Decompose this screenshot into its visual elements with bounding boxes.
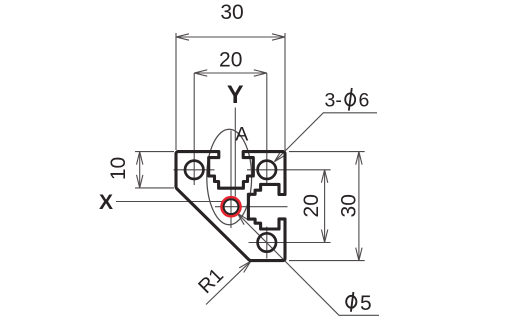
arrowhead 30 top right [272, 34, 285, 40]
arrowhead 20 right down [321, 230, 327, 243]
dimension line 30 right [358, 152, 360, 261]
arrowhead 10 up [137, 152, 143, 165]
svg-text:A: A [235, 124, 248, 146]
label 3-phi6: phi symbol [345, 88, 355, 111]
profile outline (30x30 corner extrusion cross-section) [176, 152, 285, 261]
arrowhead leader 3-phi6 [275, 150, 287, 162]
dimension line 10 left [139, 152, 141, 188]
thin construction lines group [116, 33, 379, 315]
svg-text:3-: 3- [325, 90, 342, 112]
extension line 30-top left [175, 33, 177, 150]
centerline top-left hole horizontal [174, 169, 215, 171]
red highlight circle on center hole [221, 197, 240, 216]
centerline top-right hole horizontal [247, 169, 331, 171]
extension line 30-right top [289, 151, 365, 153]
hole top-right (phi6) [258, 161, 276, 179]
arrowhead 10 down [137, 175, 143, 188]
dimension line 20 top [194, 72, 267, 74]
extension line 30-top right [284, 33, 286, 150]
svg-text:6: 6 [359, 90, 370, 112]
arrowhead 30 top left [176, 34, 189, 40]
arrowhead leader phi5 [237, 213, 248, 225]
leader phi5 [237, 213, 379, 315]
svg-text:20: 20 [300, 194, 323, 217]
Y axis line [234, 108, 236, 197]
extension line 30-right bottom [289, 260, 365, 262]
arrowhead 20 top left [194, 70, 207, 76]
label phi5: phi symbol [346, 292, 356, 312]
svg-text:10: 10 [107, 157, 130, 180]
centerline bottom hole vertical [266, 227, 268, 259]
centerline bottom hole horizontal [249, 242, 331, 244]
arrowhead 20 top right [254, 70, 267, 76]
dimension line 20 right [324, 170, 326, 243]
leader 3-phi6 [275, 113, 378, 162]
centerline top-right hole vertical [266, 73, 268, 185]
arrowhead 20 right up [321, 170, 327, 183]
X axis line [116, 201, 222, 203]
detail ellipse A [207, 129, 252, 224]
hole bottom-right (phi6) [258, 233, 276, 251]
hole center (phi5) [224, 199, 239, 214]
arrowhead 30 right down [356, 248, 362, 261]
svg-text:30: 30 [338, 194, 361, 217]
centerline top-left hole vertical [193, 73, 195, 185]
svg-text:30: 30 [220, 1, 243, 24]
arrowhead leader R1 [239, 261, 251, 272]
extension line 10 left bottom [135, 187, 174, 189]
extension line 10 left top [135, 151, 174, 153]
svg-text:20: 20 [219, 49, 242, 72]
arrowhead 30 right up [356, 152, 362, 165]
svg-text:5: 5 [360, 292, 372, 315]
dimension line 30 top [176, 36, 285, 38]
svg-text:Y: Y [227, 81, 244, 109]
centerline center hole vertical [230, 131, 232, 229]
centerline center hole horizontal [215, 206, 288, 208]
hole top-left (phi6) [185, 161, 203, 179]
svg-text:X: X [99, 191, 113, 214]
leader R1 [206, 261, 251, 304]
